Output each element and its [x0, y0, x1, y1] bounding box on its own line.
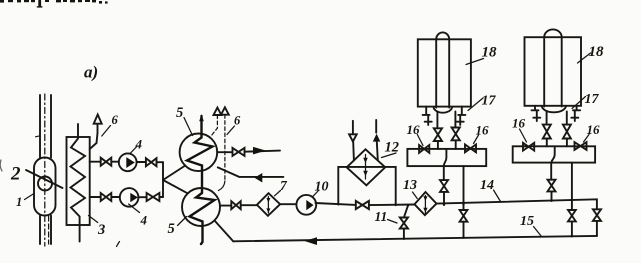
tank 1 top bump: [436, 32, 449, 39]
svg-text:18: 18: [589, 44, 605, 60]
svg-text:11: 11: [375, 209, 388, 224]
leader: [578, 53, 591, 63]
vent triangle A above circles: [214, 108, 222, 115]
leader: [572, 97, 586, 109]
svg-text:12: 12: [385, 140, 400, 156]
wire: vertical header after pumps: [162, 162, 164, 197]
pump 4 lower: [120, 188, 139, 207]
wire: heat network pipe right solid line: [50, 95, 52, 244]
wire: diagonal to lower HX 5: [163, 180, 188, 193]
valve at line 14 right end: [593, 209, 601, 221]
pump 4 upper: [119, 153, 137, 171]
wire: jog to drain valve 11: [404, 205, 408, 238]
heat exchanger 5 lower: [182, 188, 220, 226]
wire: upper HX3 outlet: [90, 161, 163, 164]
wire: heat network pipe left solid line: [39, 95, 41, 244]
heat exchanger 3 body: [67, 137, 90, 225]
vent pipe at HX3: [90, 124, 98, 149]
tank 1 right feed pipe: [454, 112, 456, 150]
valve on drop B2: [568, 210, 576, 221]
valve on DHW supply: [233, 148, 245, 156]
svg-text:13: 13: [403, 178, 417, 193]
tank 2 inner tube legs: [544, 37, 562, 106]
manifold 2 divider with jog: [551, 146, 555, 179]
leader for 12: [382, 153, 397, 158]
wire: pump to meter assembly: [315, 203, 414, 205]
wire: diagonal to upper HX 5: [163, 166, 185, 181]
tank 2 top bump: [544, 29, 562, 37]
heat exchanger coil through both circles: [187, 116, 215, 244]
tank 1 left stub fitting: [423, 107, 432, 125]
stray comma mark: [117, 242, 120, 247]
svg-text:4: 4: [140, 213, 148, 228]
svg-text:16: 16: [476, 123, 490, 138]
wire: DHW supply from upper HX: [217, 151, 280, 153]
vent triangle B above circles: [221, 107, 229, 114]
valve lower-left of pump 4: [101, 193, 112, 201]
leader for 5 lower: [178, 217, 187, 226]
leader for 4 upper: [130, 147, 137, 154]
left edge smudge: [0, 160, 2, 171]
svg-text:17: 17: [482, 94, 497, 109]
flow arrow left on line 15: [305, 237, 318, 245]
valve upper-right of pump 4: [146, 158, 157, 166]
wire: filter to pump 10: [280, 203, 296, 205]
valve after lower HX: [231, 201, 240, 209]
valve 16 right on manifold 2: [575, 142, 587, 150]
leader for 18: [466, 59, 484, 65]
manifold 1 body: [407, 149, 486, 166]
leader for 5 upper: [184, 118, 193, 136]
junction dots: [407, 204, 409, 206]
valve on main line under meter: [356, 201, 369, 209]
leader for 3: [89, 216, 98, 223]
svg-text:14: 14: [480, 178, 494, 193]
svg-text:4: 4: [135, 137, 143, 152]
feed stem with filled triangle: [375, 120, 377, 133]
vent triangle 6 at HX3: [94, 115, 102, 124]
filter 7 diamond: [257, 193, 280, 216]
meter bypass frame: [338, 167, 395, 205]
heat exchanger 5 upper: [180, 134, 218, 172]
drop B1 manifold1 to line15: [463, 166, 465, 238]
tank 1 inner tube legs: [436, 39, 449, 107]
nozzle diagonal line: [26, 170, 63, 188]
svg-text:5: 5: [176, 105, 183, 121]
wire: return diagonal from lower HX: [215, 221, 234, 242]
wire: pipe second dashed line: [48, 216, 50, 244]
tank 1 bottom dome: [434, 107, 452, 113]
feed stem with open triangle: [352, 121, 354, 135]
leader: [520, 129, 527, 142]
svg-text:17: 17: [585, 92, 600, 107]
tank 1 right stub fitting 17: [457, 107, 466, 125]
drop valve manifold2 to line14: [548, 180, 556, 192]
mud trap 13 diamond: [415, 192, 437, 215]
wire: line 15 bottom: [233, 236, 597, 241]
pump 10: [296, 195, 316, 215]
leader for 17: [468, 98, 483, 111]
heat exchanger 3 coil: [71, 124, 86, 242]
flow arrow right on DHW supply: [253, 147, 266, 155]
tank 1 left feed pipe: [436, 112, 439, 150]
manifold 2 body: [513, 146, 595, 162]
drop B2 manifold2 to line15: [571, 163, 573, 237]
leader for 6: [227, 126, 235, 135]
wire: lower HX to filter: [220, 204, 257, 206]
valve on tank 2 left leg: [543, 125, 551, 139]
svg-text:16: 16: [512, 116, 526, 131]
svg-text:7: 7: [280, 178, 288, 193]
valve 16 left on manifold 2: [523, 143, 534, 151]
leader for 4 lower: [129, 204, 140, 213]
valve lower-right of pump 4: [147, 193, 160, 201]
tank 2 bottom dome: [542, 106, 566, 113]
tank 18 no.2 body: [525, 37, 582, 106]
manifold 1 divider with jog: [444, 149, 447, 180]
leader for 7: [275, 191, 281, 196]
leader for 11: [388, 220, 398, 224]
wire: pipe dash-dot centerline: [44, 94, 46, 246]
valve 16 left on manifold 1: [419, 145, 429, 153]
leader: [584, 135, 590, 143]
leader: [417, 135, 423, 146]
leader for 10: [313, 191, 319, 197]
tank 2 left feed pipe: [546, 112, 548, 147]
tank 2 right feed pipe: [566, 112, 568, 147]
leader for 13: [413, 192, 418, 199]
flow arrow left on cold inlet: [255, 173, 263, 183]
svg-text:3: 3: [97, 222, 105, 238]
wire: cold water inlet diagonal: [218, 167, 284, 177]
svg-text:15: 15: [520, 214, 534, 229]
valve on drop B1: [460, 210, 468, 222]
wire: line 14: [437, 199, 597, 236]
svg-text:5: 5: [168, 221, 175, 237]
drop valve manifold1 to line14: [440, 180, 448, 192]
leader for 6: [102, 126, 111, 137]
coil stem arrow top: [199, 114, 204, 121]
tank 2 left stub fitting: [532, 106, 541, 121]
leader for 1: [25, 194, 35, 200]
nozzle circle 2: [38, 177, 52, 191]
elevator body 1: [34, 158, 56, 216]
vent dashed pipe A: [212, 115, 218, 136]
valve 11: [400, 218, 408, 229]
valve upper-left of pump 4: [101, 158, 112, 166]
valve on tank 1 left leg: [434, 128, 442, 141]
clipped caption text at top: [0, 0, 108, 8]
svg-text:а): а): [84, 63, 98, 82]
weld tick on pipe: [36, 136, 41, 137]
vent dashed pipe B: [224, 115, 226, 181]
leader: [474, 135, 479, 144]
wire: lower HX3 outlet: [90, 196, 163, 198]
svg-text:6: 6: [234, 114, 241, 128]
svg-text:2: 2: [10, 164, 21, 185]
svg-text:1: 1: [16, 195, 22, 209]
valve on tank 2 right leg: [563, 125, 571, 139]
leader for 14: [494, 190, 501, 202]
valve on tank 1 right leg: [452, 128, 460, 141]
svg-text:6: 6: [112, 113, 119, 127]
leader for 15: [534, 227, 542, 237]
tank 18 no.1 body: [418, 39, 471, 106]
water meter 12 diamond: [347, 149, 386, 185]
tank 2 right stub fitting 17: [571, 106, 580, 121]
valve 16 right on manifold 1: [465, 145, 476, 153]
